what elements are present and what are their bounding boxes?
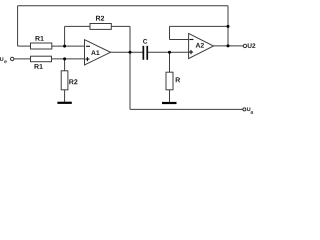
- A1 inverting input sign -: [86, 45, 90, 47]
- terminal circle Ue: [11, 57, 14, 60]
- junction A1 inverting node: [63, 45, 66, 48]
- resistor R2 shunt at A1 non-inverting input: [61, 71, 77, 90]
- resistor R1 upper (feedback from U2): [31, 36, 52, 49]
- wire node down to resistor R: [169, 52, 171, 72]
- value label R1 (lower): [34, 64, 42, 69]
- capacitor C: [143, 39, 149, 60]
- wire A2 output to U2 terminal: [214, 45, 244, 47]
- wire A1 output node down to bottom rail: [129, 52, 131, 109]
- resistor R shunt at A2 input: [166, 72, 180, 90]
- resistor body R2 shunt: [61, 71, 68, 90]
- op-amp A2: [189, 33, 214, 58]
- wire non-inverting node down to R2 shunt: [64, 59, 66, 71]
- wire capacitor C to A2 non-inverting input: [148, 51, 189, 53]
- wire R2 feedback left segment: [65, 25, 90, 27]
- label U2: [248, 43, 256, 48]
- junction A2 feedback rail: [227, 25, 230, 28]
- wire right vertical from top rail to A2 output: [227, 6, 229, 46]
- resistor body R: [166, 72, 173, 90]
- junction A2 input node: [168, 51, 171, 54]
- wire input line from Ue terminal to lower R1: [14, 58, 31, 60]
- wire upper R1 line right segment to A1 inverting input: [52, 45, 85, 47]
- value label R2 (feedback): [96, 16, 104, 21]
- capacitor plate right: [146, 46, 148, 60]
- resistor R2 feedback of A1: [90, 16, 111, 30]
- terminal Ua output: [243, 107, 253, 113]
- terminal circle Ua: [243, 108, 246, 111]
- label A1: [91, 50, 99, 55]
- wire upper R1 line left segment: [18, 45, 31, 47]
- wire A2 feedback vertical down to inverting input: [169, 26, 171, 39]
- resistor R1 lower (input): [31, 56, 52, 69]
- value label R1 (upper): [35, 36, 43, 41]
- A1 non-inverting input sign +: [85, 57, 89, 61]
- value label R2 (shunt): [69, 79, 77, 84]
- wire lower R1 to A1 non-inverting input: [52, 58, 85, 60]
- value label C: [143, 39, 147, 44]
- terminal Ue input: [0, 57, 14, 63]
- op-amp A2 triangle: [189, 33, 214, 58]
- resistor body R1 upper: [31, 43, 52, 49]
- wire top feedback rail from U2 node to left: [18, 5, 228, 7]
- A2 non-inverting input sign +: [189, 50, 193, 54]
- resistor body R1 lower: [31, 56, 52, 62]
- ground (below R): [162, 102, 177, 104]
- value label R: [176, 77, 180, 82]
- wire left vertical down to R1 input: [17, 6, 19, 46]
- wire bottom rail to Ua terminal: [130, 108, 243, 110]
- terminal circle U2: [243, 44, 246, 47]
- capacitor plate left: [143, 46, 145, 60]
- wire A1 output to capacitor C: [111, 51, 143, 53]
- wire inverting node vertical up to R2 feedback: [64, 26, 66, 46]
- junction A2 output node: [227, 44, 230, 47]
- wire resistor R to ground: [169, 90, 171, 103]
- wire A2 feedback rail from output: [170, 25, 229, 27]
- A2 inverting input sign -: [189, 39, 193, 41]
- label A2: [196, 43, 204, 48]
- junction A1 output node: [129, 51, 132, 54]
- op-amp A1 triangle: [85, 40, 111, 65]
- wire R2 feedback down to A1 output node: [129, 26, 131, 52]
- op-amp A1: [85, 40, 111, 65]
- wire A2 inverting input horizontal: [170, 39, 189, 41]
- wire R2 shunt to ground: [64, 90, 66, 102]
- resistor body R2 feedback: [90, 24, 111, 30]
- label Ue: [0, 57, 3, 61]
- wire R2 feedback right segment: [111, 25, 130, 27]
- terminal U2 output: [243, 43, 255, 48]
- label Ua: [247, 107, 250, 111]
- junction A1 non-inverting node: [63, 57, 66, 60]
- ground (below R2 shunt): [57, 102, 71, 104]
